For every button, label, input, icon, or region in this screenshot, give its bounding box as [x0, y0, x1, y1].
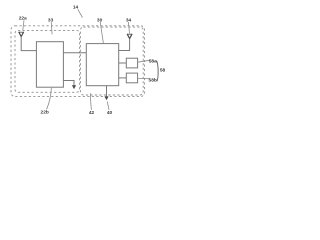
- svg-text:22a: 22a: [19, 15, 27, 21]
- svg-text:30: 30: [97, 17, 103, 23]
- block 30 (right inner rectangle): [86, 44, 118, 86]
- device box 22a (left dashed enclosure): [15, 30, 80, 92]
- leader 42: [89, 93, 92, 110]
- leader 58b: [138, 77, 149, 79]
- leader 22b: [47, 88, 52, 110]
- leader 30: [100, 22, 103, 44]
- device box 42 (right dashed enclosure): [80, 27, 143, 95]
- leader 33: [50, 22, 53, 34]
- wire block22b output with down arrow: [63, 81, 74, 87]
- svg-text:34: 34: [126, 17, 132, 23]
- wire block30-to-58a: [119, 62, 127, 64]
- wire antenna34-to-block30: [119, 38, 130, 50]
- svg-text:22b: 22b: [41, 110, 49, 116]
- svg-text:58a: 58a: [149, 58, 157, 64]
- block 22b (left inner rectangle): [36, 42, 63, 87]
- wire block30 output 40 with down arrow: [106, 86, 108, 97]
- arrowhead left output: [72, 85, 76, 89]
- svg-text:42: 42: [89, 110, 95, 116]
- block 58a (small box top): [126, 58, 137, 68]
- leader 34: [128, 22, 129, 34]
- wire antenna-to-block22b: [21, 36, 36, 50]
- leader 40: [107, 102, 109, 110]
- leader 58a: [138, 60, 149, 62]
- leader 14: [78, 9, 83, 17]
- antenna of left device: [19, 32, 24, 37]
- leader 22a: [23, 20, 24, 30]
- svg-text:58: 58: [160, 67, 166, 73]
- antenna 34 (right device): [127, 34, 132, 39]
- svg-text:33: 33: [48, 17, 54, 23]
- block 58b (small box bottom): [126, 73, 137, 83]
- arrowhead right output: [104, 96, 108, 100]
- system box 14 (outer dashed enclosure): [11, 26, 145, 97]
- svg-text:58b: 58b: [149, 77, 157, 83]
- svg-text:40: 40: [107, 110, 113, 116]
- wire block22b-to-block30 (link between devices): [63, 52, 86, 54]
- svg-text:14: 14: [73, 5, 79, 11]
- bracket 58 (grouping arc): [157, 61, 159, 82]
- wire block30-to-58b: [119, 77, 127, 79]
